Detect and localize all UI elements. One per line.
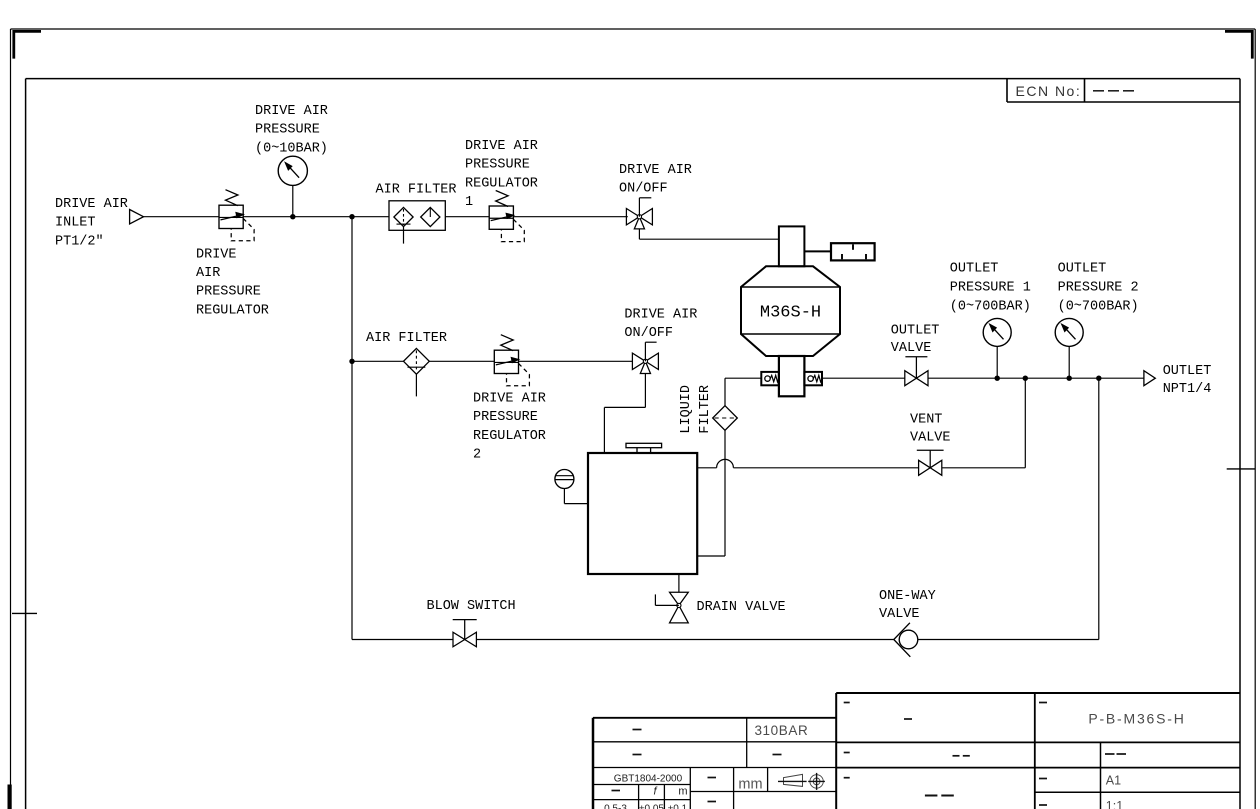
- svg-text:2: 2: [473, 448, 481, 463]
- svg-text:±0.05: ±0.05: [639, 804, 664, 809]
- svg-text:m: m: [678, 786, 687, 798]
- svg-text:ON/OFF: ON/OFF: [624, 326, 673, 341]
- svg-text:OUTLET: OUTLET: [891, 323, 940, 338]
- svg-text:BLOW SWITCH: BLOW SWITCH: [427, 599, 516, 614]
- svg-text:OUTLET: OUTLET: [1163, 364, 1212, 379]
- svg-text:mm: mm: [738, 777, 762, 793]
- svg-text:P-B-M36S-H: P-B-M36S-H: [1088, 711, 1185, 727]
- svg-text:REGULATOR: REGULATOR: [196, 303, 269, 318]
- svg-text:FILTER: FILTER: [698, 385, 713, 434]
- svg-text:AIR FILTER: AIR FILTER: [366, 331, 447, 346]
- svg-text:OUTLET: OUTLET: [1058, 262, 1107, 277]
- svg-text:A1: A1: [1106, 773, 1121, 787]
- svg-text:DRIVE AIR: DRIVE AIR: [473, 391, 546, 406]
- svg-text:PT1/2″: PT1/2″: [55, 234, 104, 249]
- svg-text:DRIVE: DRIVE: [196, 247, 237, 262]
- svg-text:PRESSURE 1: PRESSURE 1: [950, 280, 1031, 295]
- svg-text:AIR: AIR: [196, 266, 220, 281]
- svg-text:VENT: VENT: [910, 412, 942, 427]
- svg-text:DRIVE AIR: DRIVE AIR: [465, 139, 538, 154]
- svg-text:INLET: INLET: [55, 216, 96, 231]
- svg-text:LIQUID: LIQUID: [679, 385, 694, 434]
- svg-text:NPT1/4: NPT1/4: [1163, 382, 1212, 397]
- svg-text:AIR FILTER: AIR FILTER: [376, 183, 457, 198]
- svg-text:VALVE: VALVE: [891, 341, 932, 356]
- svg-text:DRIVE AIR: DRIVE AIR: [255, 104, 328, 119]
- svg-text:REGULATOR: REGULATOR: [473, 429, 546, 444]
- svg-text:ON/OFF: ON/OFF: [619, 182, 668, 197]
- svg-text:PRESSURE: PRESSURE: [473, 410, 538, 425]
- svg-text:PRESSURE: PRESSURE: [196, 285, 261, 300]
- svg-text:VALVE: VALVE: [910, 430, 951, 445]
- svg-text:(0~700BAR): (0~700BAR): [950, 299, 1031, 314]
- svg-text:DRIVE AIR: DRIVE AIR: [619, 163, 692, 178]
- svg-text:VALVE: VALVE: [879, 607, 920, 622]
- svg-text:±0.1: ±0.1: [668, 804, 688, 809]
- svg-text:M36S-H: M36S-H: [760, 304, 821, 323]
- svg-text:1:1: 1:1: [1106, 799, 1123, 809]
- svg-text:DRAIN VALVE: DRAIN VALVE: [697, 600, 786, 615]
- svg-text:PRESSURE: PRESSURE: [465, 158, 530, 173]
- svg-text:REGULATOR: REGULATOR: [465, 176, 538, 191]
- svg-text:DRIVE AIR: DRIVE AIR: [624, 307, 697, 322]
- svg-text:ECN No:: ECN No:: [1016, 83, 1082, 99]
- svg-text:(0~10BAR): (0~10BAR): [255, 141, 328, 156]
- svg-text:1: 1: [465, 195, 473, 210]
- svg-text:OUTLET: OUTLET: [950, 262, 999, 277]
- svg-text:PRESSURE 2: PRESSURE 2: [1058, 280, 1139, 295]
- svg-text:(0~700BAR): (0~700BAR): [1058, 299, 1139, 314]
- svg-text:GBT1804-2000: GBT1804-2000: [614, 774, 683, 785]
- svg-text:ONE-WAY: ONE-WAY: [879, 589, 936, 604]
- svg-text:PRESSURE: PRESSURE: [255, 123, 320, 138]
- svg-text:0.5-3: 0.5-3: [604, 804, 627, 809]
- svg-text:310BAR: 310BAR: [754, 723, 808, 738]
- svg-text:DRIVE AIR: DRIVE AIR: [55, 197, 128, 212]
